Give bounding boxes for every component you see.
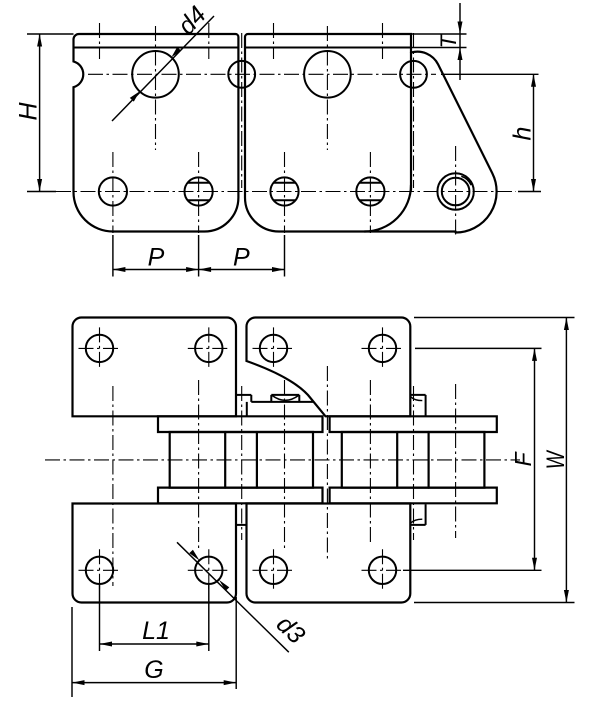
centerline hole row (side view) (88, 73, 436, 75)
centerline pin 2 vertical (198, 152, 200, 233)
attachment plate A bottom (plan) (73, 504, 237, 603)
small hole at plate junction (228, 61, 255, 88)
bolt hole d3 at x=273.5 y=570.3 (253, 549, 295, 591)
dimension F (403, 348, 542, 570)
centerline roller joint vertical (455, 146, 457, 237)
centerline big hole d4 vertical (155, 26, 157, 150)
bushing-roller interior left (170, 432, 313, 488)
attachment plate B top and right edge (245, 34, 411, 190)
centerline attachment link B vertical (plan) (326, 366, 328, 560)
dimension W (414, 318, 575, 603)
outer link plate strip bottom-right (330, 488, 497, 504)
bolt hole d3 at x=208.8 y=570.3 (188, 549, 230, 591)
centerline pin vertical (plan) (284, 380, 286, 548)
bolt hole d3 at x=208.8 y=348.4 (188, 327, 230, 369)
outer link plate strip top-left (158, 416, 323, 432)
plate A shelf bottom edge (74, 47, 239, 49)
attachment plate B left edge and bottom (245, 37, 456, 232)
bushing edge line (428, 432, 430, 488)
centerline small hole vertical (413, 33, 415, 188)
dimension h (441, 74, 541, 191)
plate B bottom right corner arc (365, 185, 412, 232)
svg-text:W: W (542, 449, 570, 469)
centerline pin vertical (plan) (198, 380, 200, 548)
svg-text:G: G (144, 656, 163, 684)
svg-text:P: P (233, 244, 250, 272)
centerline pin 4 vertical (369, 152, 371, 233)
next link bend leg bottom (plan) (410, 504, 426, 525)
dimension P pitch (113, 235, 285, 277)
centerline big hole d4 vertical (326, 26, 328, 150)
centerline small hole vertical (241, 33, 243, 188)
bushing end with pin flats 4 (356, 177, 384, 205)
dimension T (411, 3, 467, 80)
outer link plate (teardrop) outline (411, 52, 497, 233)
bushing end with pin flats 2 (185, 177, 213, 205)
svg-text:L1: L1 (142, 617, 170, 645)
dimension L1 (100, 584, 209, 651)
pin 1 end (99, 177, 127, 205)
next link bend leg top (plan) (410, 395, 426, 416)
bushing-roller interior right (342, 432, 485, 488)
bolt hole d3 at x=273.5 y=348.4 (253, 327, 295, 369)
bushing end with pin flats 3 (270, 177, 298, 205)
plate B shelf bottom edge (245, 47, 411, 49)
hole d4 right (304, 51, 351, 98)
centerline link junction vertical (plan) (413, 386, 415, 540)
attachment plate A top (plan) (73, 318, 237, 417)
centerline pin vertical (plan) (455, 384, 457, 538)
bolt hole d3 at x=382.5 y=348.4 (362, 327, 404, 369)
dimension H (27, 34, 74, 192)
bushing edge line (224, 432, 226, 488)
centerline shelf bolt hole vertical (side view) (382, 23, 384, 59)
svg-text:T: T (436, 33, 461, 48)
outer link plate strip top-right (330, 416, 497, 432)
centerline pin vertical (plan) (369, 380, 371, 545)
attachment plate B bottom (plan) (247, 504, 411, 603)
bushing edge line (256, 432, 258, 488)
attachment plate B top with cutout (plan) (247, 318, 411, 417)
attachment bend leg top edge (through cutout) (236, 395, 314, 416)
centerline shelf bolt hole vertical (side view) (273, 23, 275, 59)
svg-text:h: h (509, 127, 537, 141)
bushing edge line (396, 432, 398, 488)
svg-text:H: H (15, 102, 43, 121)
bolt hole d3 at x=99.5 y=348.4 (79, 327, 121, 369)
roller chamfer arc (461, 176, 471, 185)
centerline shelf bolt hole vertical (side view) (99, 23, 101, 59)
bushing inner circle (442, 178, 470, 206)
centerline pin vertical (plan) (112, 386, 114, 586)
svg-text:F: F (510, 451, 536, 467)
roller outer circle (437, 173, 473, 209)
leader d3 (177, 542, 289, 652)
bolt hole d3 at x=99.5 y=570.3 (79, 549, 121, 591)
small hole outer link plate (400, 61, 427, 88)
centerline link junction vertical (plan) (241, 386, 243, 540)
svg-text:P: P (148, 244, 165, 272)
centerline chain pitch line (side view) (56, 191, 516, 193)
leader d4 (112, 16, 214, 121)
attachment plate A outline (side view) (74, 34, 239, 232)
centerline chain (plan view) (45, 459, 520, 461)
centerline pin 3 vertical (284, 152, 286, 233)
pin head dome (plan detail) (271, 395, 299, 402)
bolt hole d3 at x=382.5 y=570.3 (362, 549, 404, 591)
hole d4 left (132, 51, 179, 98)
attachment bend leg bottom edge (through slot) (236, 524, 247, 526)
centerline pin 1 vertical (112, 152, 114, 233)
dimension G (72, 597, 236, 697)
outer link plate strip bottom-left (158, 488, 323, 504)
centerline shelf bolt hole vertical (side view) (208, 23, 210, 59)
